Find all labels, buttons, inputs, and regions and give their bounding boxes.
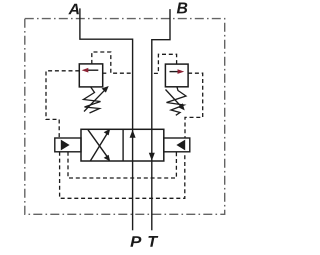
- pilot actuator box left: [55, 138, 81, 152]
- relief valve RV2 (right) body square: [165, 64, 188, 87]
- pilot actuator left triangle: [61, 140, 70, 151]
- directional valve V1 position divider: [122, 129, 124, 161]
- port label A: [68, 4, 79, 14]
- pilot actuator box right: [164, 138, 190, 152]
- V1 left position crossed-flow arrow 1 (up-right): [90, 129, 110, 161]
- wire: port A line down and jog right: [80, 8, 133, 129]
- V1 right position straight passage P-to-A with up arrow: [130, 129, 136, 161]
- wire: port B line down and jog left: [152, 9, 170, 129]
- V1 left position crossed-flow arrow 2 (down-right): [88, 130, 110, 162]
- directional valve V1 body: [81, 129, 164, 161]
- pilot line: inner cross U between actuator bottoms: [68, 152, 176, 178]
- RV1 spring: [84, 87, 101, 113]
- RV1 adjustment arrow: [84, 86, 109, 112]
- wire: port T line from valve bottom to bottom edge: [151, 161, 153, 230]
- RV2 internal flow arrow (points right, red head): [170, 69, 185, 74]
- RV2 adjustment arrow: [166, 90, 185, 111]
- pilot line: outer cross U between actuator bottoms: [60, 152, 185, 199]
- port label T: [148, 236, 158, 247]
- port label B: [177, 2, 187, 13]
- relief valve RV1 (left) body square: [79, 64, 102, 87]
- wire: port P line from valve bottom to bottom edge: [132, 161, 134, 230]
- RV1 right port stub: [103, 72, 107, 74]
- manifold block boundary (dash-dot enclosure): [25, 19, 225, 215]
- pilot line: RV1 top sensing loop to A line: [92, 52, 133, 73]
- V1 right position straight passage B-to-T with down arrow: [149, 129, 155, 161]
- pilot line: RV2 right port loop down to right actuator top: [185, 73, 203, 138]
- port label P: [130, 236, 141, 247]
- RV1 internal flow arrow (points left, red head): [82, 68, 99, 73]
- RV2 spring: [167, 87, 187, 116]
- pilot line: RV2 top sensing loop to B line: [152, 54, 177, 73]
- pilot actuator right triangle: [176, 140, 185, 151]
- pilot line: RV1 left port loop down to left actuator top: [46, 71, 79, 138]
